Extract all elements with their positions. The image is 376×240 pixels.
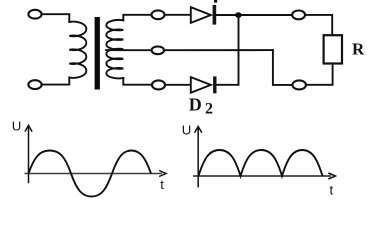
axis Y left plot — [28, 127, 30, 184]
svg-text:2: 2 — [205, 101, 213, 118]
diode D2 triangle — [191, 77, 211, 93]
svg-text:t: t — [160, 177, 164, 192]
wire primary bottom — [42, 78, 70, 85]
secondary winding L2 — [106, 20, 123, 78]
wire secondary bottom — [123, 78, 152, 85]
axis X right plot — [193, 175, 331, 177]
wire output bottom to center-tap branch — [273, 50, 293, 85]
diode D1 triangle — [191, 7, 211, 23]
node junction dot — [235, 12, 242, 18]
terminal top-left — [28, 10, 41, 19]
sine curve — [29, 151, 152, 197]
wire to D2 anode — [165, 84, 191, 86]
axis X left plot — [25, 173, 163, 175]
wire to D1 anode — [165, 14, 191, 16]
svg-text:U: U — [182, 123, 192, 138]
diode D2 cathode bar — [213, 76, 216, 93]
wire D2 cathode to junction vertical — [217, 15, 239, 85]
svg-text:U: U — [12, 119, 22, 134]
terminal output top — [292, 11, 305, 20]
terminal secondary center — [152, 46, 164, 54]
wire primary top — [42, 14, 70, 22]
diode D1 cathode bar — [213, 5, 217, 25]
resistor R body — [324, 35, 342, 63]
wire center tap to corner — [164, 49, 273, 51]
wire D1 to junction — [216, 14, 238, 16]
transformer core — [95, 17, 100, 90]
wire resistor bottom — [307, 64, 332, 85]
svg-text:t: t — [330, 183, 334, 198]
arrowhead Y left plot — [25, 125, 32, 131]
primary winding L1 — [69, 22, 86, 78]
svg-text:R: R — [352, 39, 365, 58]
axis Y right plot — [197, 128, 199, 188]
wire center tap rail — [106, 49, 151, 51]
wire junction to output terminal — [242, 14, 293, 16]
svg-text:D: D — [189, 94, 202, 114]
rectified humps — [199, 150, 323, 176]
terminal secondary top — [152, 10, 165, 19]
terminal output bottom — [292, 80, 306, 89]
arrowhead X left plot — [159, 171, 166, 177]
terminal secondary bottom — [152, 80, 165, 89]
arrowhead Y right plot — [195, 126, 202, 132]
terminal bottom-left — [28, 80, 41, 89]
arrowhead X right plot — [328, 173, 335, 179]
wire secondary top — [123, 15, 151, 20]
wire output top to resistor — [305, 15, 332, 35]
label D1 remnant — [214, 0, 217, 3]
